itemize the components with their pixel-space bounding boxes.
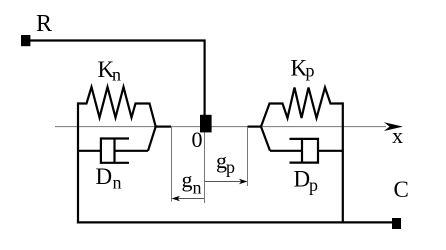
damper Dp xyxy=(261,127,343,163)
svg-text:p: p xyxy=(306,61,315,81)
node R xyxy=(21,35,30,46)
svg-text:g: g xyxy=(182,167,193,192)
extension line node 0 xyxy=(204,133,206,204)
svg-text:C: C xyxy=(394,177,409,202)
rod left junction xyxy=(155,125,171,127)
rod right junction xyxy=(248,125,262,127)
wire R to node 0 xyxy=(30,41,205,116)
axis arrowhead xyxy=(384,122,403,131)
bottom wire xyxy=(77,221,395,223)
extension line gn left xyxy=(171,127,173,202)
axis line x xyxy=(55,126,386,128)
node C xyxy=(392,218,401,229)
svg-text:0: 0 xyxy=(192,127,203,152)
svg-text:n: n xyxy=(193,178,202,198)
extension line gp right xyxy=(247,127,249,186)
svg-text:D: D xyxy=(294,167,311,192)
right rail wire xyxy=(342,102,344,223)
svg-text:p: p xyxy=(309,175,318,195)
svg-text:n: n xyxy=(113,173,122,193)
spring Kn xyxy=(78,87,156,127)
svg-text:x: x xyxy=(392,123,403,148)
svg-text:R: R xyxy=(36,11,52,37)
svg-text:n: n xyxy=(112,65,121,85)
left rail wire xyxy=(77,102,79,223)
svg-text:p: p xyxy=(226,157,235,177)
spring Kp xyxy=(261,88,343,127)
damper Dn xyxy=(78,127,156,163)
dimension gn xyxy=(175,198,204,200)
svg-text:D: D xyxy=(96,164,113,189)
node 0 xyxy=(200,115,212,133)
dimension gp xyxy=(205,181,244,183)
